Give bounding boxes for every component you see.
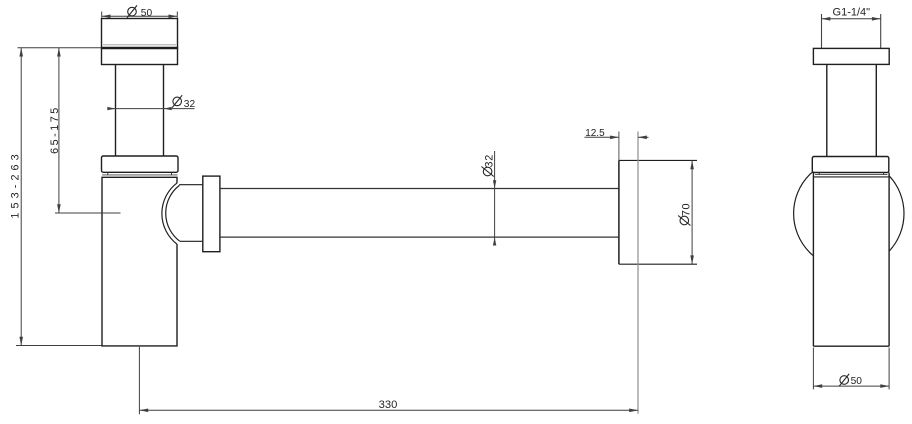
svg-text:153-263: 153-263 — [10, 150, 22, 218]
svg-text:70: 70 — [680, 203, 692, 217]
svg-text:12.5: 12.5 — [585, 128, 605, 139]
svg-text:50: 50 — [141, 8, 153, 19]
svg-text:65-175: 65-175 — [49, 105, 61, 154]
svg-text:32: 32 — [484, 154, 496, 168]
svg-text:32: 32 — [184, 99, 196, 110]
svg-text:50: 50 — [851, 376, 863, 387]
svg-text:G1-1/4": G1-1/4" — [833, 7, 871, 19]
svg-text:330: 330 — [379, 399, 398, 411]
